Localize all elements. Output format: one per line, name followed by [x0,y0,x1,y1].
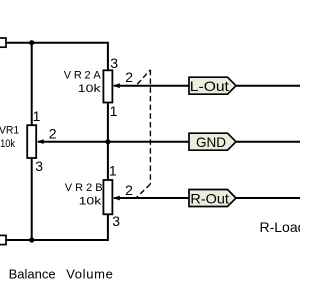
svg-text:3: 3 [110,55,118,71]
gang coupling dashed line between VR2A and VR2B wipers [137,70,151,198]
svg-text:R-Out: R-Out [190,191,229,207]
svg-text:L-Out: L-Out [190,78,229,94]
svg-text:1: 1 [110,103,118,119]
svg-text:2: 2 [125,69,133,85]
svg-text:Volume: Volume [66,267,113,282]
potentiometer VR2A body [103,70,112,102]
terminal box bottom-left [0,235,6,244]
svg-text:1: 1 [33,108,41,124]
potentiometer VR2B body [103,180,112,214]
wire L-Out tag tip to right edge [236,85,300,87]
potentiometer VR1 wiper arrow [37,139,44,144]
wire GND net junction to tag [108,141,189,143]
svg-text:10k: 10k [78,83,101,95]
svg-text:Balance: Balance [9,267,56,282]
svg-text:10k: 10k [79,196,102,208]
potentiometer VR2A wiper arrow [113,83,120,88]
wire VR1 pin3 down to bottom rail [31,158,33,240]
svg-text:GND: GND [196,134,226,150]
net tag GND [189,133,236,150]
svg-text:3: 3 [112,213,120,229]
wire VR2B wiper to R-Out tag [114,197,189,199]
svg-text:R-Load: R-Load [260,219,301,235]
wire top rail from input box to VR2A pin3 [6,43,108,71]
wire VR2A pin1 / VR2B pin1 vertical through middle junction [107,103,109,181]
net tag R-Out [189,190,236,207]
terminal box top-left [0,38,6,47]
junction middle (VR1 wiper / VR2 pins 1 / GND) [105,139,110,144]
potentiometer VR1 body [27,125,36,158]
junction bottom (VR1 pin3 / bottom rail) [29,237,34,242]
svg-text:3: 3 [35,158,43,174]
wire GND tag tip to right edge [236,141,300,143]
wire VR2A wiper to L-Out tag [114,85,189,87]
svg-text:1: 1 [109,162,117,178]
svg-text:2: 2 [49,126,57,142]
wire bottom rail from input box to VR2B pin3 [6,214,108,240]
net tag L-Out [189,77,236,94]
svg-text:10k: 10k [0,138,15,150]
wire R-Out tag tip to right edge [236,197,300,199]
svg-text:VR1: VR1 [0,124,19,136]
junction top (VR1 pin1 / top rail) [29,40,34,45]
svg-text:2: 2 [125,182,133,198]
potentiometer VR2B wiper arrow [113,196,120,201]
wire VR1 pin1 up to top rail [31,43,33,126]
wire VR1 wiper to middle junction [38,141,108,143]
